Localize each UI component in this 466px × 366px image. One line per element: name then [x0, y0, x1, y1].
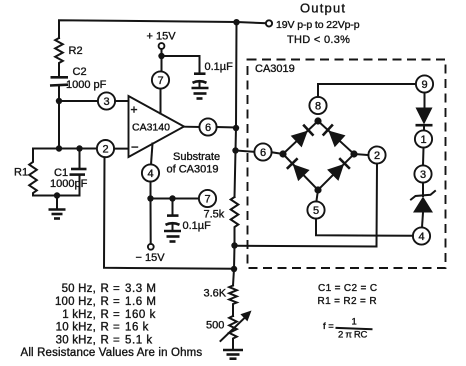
wire top feedback [59, 20, 266, 38]
svg-text:9: 9 [421, 79, 427, 91]
svg-text:R1 = R2 = R: R1 = R2 = R [318, 296, 377, 307]
svg-text:2: 2 [102, 144, 108, 156]
bridge diamond wires [283, 121, 354, 190]
wire bridge left stub [272, 152, 283, 154]
svg-text:− 15V: − 15V [136, 252, 166, 264]
table row 100 Hz [55, 296, 157, 308]
node pin6 junction [233, 125, 239, 131]
ground bottom [223, 350, 243, 359]
svg-text:C1 = C2 = C: C1 = C2 = C [318, 283, 377, 294]
svg-text:=: = [113, 283, 120, 295]
CA3019 pin 5 circle [307, 201, 324, 218]
ground bypass top [192, 88, 209, 99]
wire to bypass cap [162, 56, 200, 73]
wire rail to 3.6K [233, 246, 235, 286]
svg-text:160 k: 160 k [125, 309, 156, 321]
capacitor C1 [70, 149, 87, 196]
wire pin6 to rail [217, 126, 236, 129]
node +15V branch [158, 53, 164, 59]
svg-text:f =: f = [323, 321, 334, 332]
CA3019 pin 4 circle [413, 227, 430, 244]
svg-text:R: R [101, 283, 109, 295]
pin 4 circle [142, 164, 159, 181]
svg-text:=: = [113, 296, 120, 308]
wire pin2 down to feedback [376, 164, 379, 247]
svg-text:0.1µF: 0.1µF [205, 61, 234, 73]
table row 1 kHz [62, 309, 156, 321]
CA3019 dashed box [248, 60, 446, 269]
svg-text:R: R [101, 334, 109, 346]
svg-text:1 kHz,: 1 kHz, [62, 309, 96, 321]
formula f [323, 317, 372, 341]
svg-text:50 Hz,: 50 Hz, [62, 283, 96, 295]
svg-text:4: 4 [418, 231, 424, 243]
svg-text:3: 3 [420, 169, 426, 181]
wire pin1 to pin3 [422, 148, 425, 166]
wire pin4 down [150, 182, 152, 199]
diode D5 pin9 to pin1 [416, 93, 433, 131]
CA3019 pin 1 circle [415, 130, 432, 147]
capacitor 0.1uF top [193, 74, 207, 87]
svg-text:5.1 k: 5.1 k [125, 334, 153, 346]
wire to CA3019 pin 6 [236, 151, 255, 152]
svg-text:500: 500 [206, 320, 224, 332]
svg-text:+ 15V: + 15V [147, 31, 177, 43]
svg-text:6: 6 [205, 122, 211, 134]
pin 4 stub [151, 144, 153, 165]
node inverting branch [56, 145, 62, 151]
resistor R2 [55, 38, 63, 76]
svg-text:−: − [131, 140, 139, 155]
resistor 3.6K [229, 286, 237, 317]
svg-text:=: = [113, 309, 120, 321]
wire pin3 to op-amp [115, 100, 129, 102]
svg-text:6: 6 [260, 147, 266, 159]
rail main [235, 22, 237, 198]
potentiometer 500 [221, 311, 252, 350]
zener D6 pin3 to pin4 [411, 183, 435, 228]
diode bridge lower-right [327, 158, 350, 181]
-15V terminal [148, 199, 154, 250]
svg-text:1: 1 [420, 134, 426, 146]
svg-text:0.1µF: 0.1µF [183, 220, 212, 232]
svg-text:7: 7 [157, 75, 163, 87]
substrate pin 7 circle [199, 190, 216, 207]
svg-text:1: 1 [352, 317, 357, 328]
svg-text:3: 3 [103, 96, 109, 108]
svg-text:10 kHz,: 10 kHz, [56, 322, 96, 334]
wire to substrate pin 7 [151, 198, 200, 200]
svg-text:7: 7 [204, 194, 210, 206]
wire pin2 to op-amp [114, 148, 129, 150]
node feedback tap [231, 242, 237, 248]
svg-text:Output: Output [300, 1, 346, 16]
capacitor 0.1uF mid [166, 199, 180, 231]
pin 2 circle [97, 140, 114, 157]
node divider tap [231, 266, 237, 272]
diode bridge lower-left [286, 158, 309, 181]
wire op-amp output [184, 126, 200, 128]
node bridge right [350, 150, 357, 157]
svg-text:100 Hz,: 100 Hz, [55, 296, 96, 308]
node ground left [54, 192, 60, 198]
wire to pin 3 [59, 100, 98, 102]
pin 7 circle [152, 71, 169, 88]
svg-text:THD < 0.3%: THD < 0.3% [287, 34, 350, 46]
table row 30 kHz [56, 334, 153, 346]
op-amp U1 CA3140 [129, 96, 185, 157]
svg-text:R: R [101, 309, 109, 321]
svg-text:R: R [101, 296, 109, 308]
node bridge top [314, 117, 321, 124]
ground 0.1uF mid [164, 231, 181, 242]
svg-text:Substrate: Substrate [173, 151, 220, 163]
svg-text:7.5k: 7.5k [204, 209, 225, 221]
node bridge left [279, 150, 286, 157]
node pin3 branch [56, 98, 62, 104]
wire tap to CA3019 pin2 net [235, 245, 377, 248]
CA3019 pin 9 circle [416, 75, 433, 92]
svg-text:4: 4 [147, 168, 153, 180]
svg-text:R1: R1 [14, 167, 28, 179]
ground left [49, 196, 66, 219]
resistor 7.5k [231, 197, 239, 246]
+15V terminal [159, 43, 165, 71]
CA3019 pin 2 circle [368, 146, 385, 163]
node top output junction [233, 19, 239, 25]
wire bridge bottom stub [316, 190, 318, 201]
svg-text:19V p-p to 22Vp-p: 19V p-p to 22Vp-p [276, 19, 360, 31]
svg-text:=: = [113, 322, 120, 334]
wire bridge right stub [354, 154, 368, 155]
svg-text:1000 pF: 1000 pF [66, 79, 107, 91]
svg-text:8: 8 [315, 101, 321, 113]
diode bridge upper-left [291, 124, 314, 147]
svg-text:CA3019: CA3019 [255, 63, 295, 75]
output terminal [266, 20, 272, 26]
node CA3019 pin6 branch [232, 147, 238, 153]
svg-text:1.6 M: 1.6 M [125, 296, 157, 308]
label Substrate of CA3019 [167, 151, 221, 176]
svg-text:C2: C2 [73, 66, 87, 78]
pin 6 circle [199, 118, 216, 135]
svg-text:R2: R2 [69, 45, 83, 57]
resistor R1 [29, 149, 79, 196]
svg-text:R: R [101, 322, 109, 334]
node 0.1uF branch [169, 195, 175, 201]
node bridge bottom [314, 186, 321, 193]
table row 50 Hz [62, 283, 157, 295]
CA3019 pin 6 circle [254, 143, 271, 160]
svg-text:CA3140: CA3140 [132, 122, 170, 134]
CA3019 pin 8 circle [309, 97, 326, 114]
svg-text:16 k: 16 k [125, 322, 149, 334]
svg-text:3.6K: 3.6K [204, 288, 227, 300]
svg-text:1000pF: 1000pF [50, 178, 88, 190]
wire pin5 to pin4 [316, 219, 413, 236]
svg-text:All Resistance Values Are in O: All Resistance Values Are in Ohms [21, 347, 203, 359]
wire to pin 2 [33, 148, 97, 150]
node C1 top [76, 145, 82, 151]
node -15V branch [147, 195, 153, 201]
svg-text:+: + [131, 103, 138, 117]
svg-text:3.3 M: 3.3 M [125, 283, 157, 295]
svg-text:of CA3019: of CA3019 [167, 164, 219, 176]
pin 7 stub [160, 89, 162, 114]
svg-text:30 kHz,: 30 kHz, [56, 334, 96, 346]
wire pin2 feedback down [104, 157, 234, 269]
diode bridge upper-right [322, 124, 345, 147]
CA3019 pin 3 circle [414, 165, 431, 182]
svg-text:2 π RC: 2 π RC [338, 330, 367, 341]
capacitor C2 [50, 77, 68, 148]
table row 10 kHz [56, 322, 149, 334]
svg-text:=: = [113, 334, 120, 346]
svg-text:2: 2 [374, 150, 380, 162]
svg-text:5: 5 [313, 205, 319, 217]
wire pin8 up to pin9 [318, 84, 416, 97]
pin 3 circle [98, 92, 115, 109]
